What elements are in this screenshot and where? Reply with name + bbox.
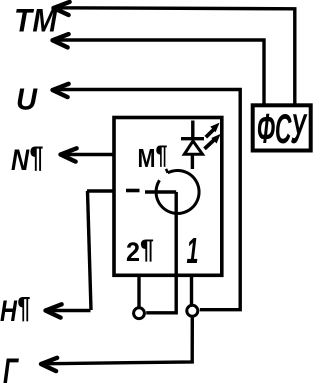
svg-text:ФСУ: ФСУ [257, 105, 308, 152]
svg-text:Н¶: Н¶ [0, 292, 30, 329]
wire G vertical and horizontal [42, 316, 193, 364]
LED arrow 1 [206, 123, 220, 138]
terminal circle 2 (left) [134, 308, 145, 319]
wire TM line 2 [53, 40, 264, 104]
arrowhead G [41, 358, 57, 371]
wire U [53, 90, 240, 310]
motor circle [156, 169, 199, 214]
svg-text:2¶: 2¶ [126, 234, 154, 267]
terminal circle 1 (right) [187, 305, 198, 316]
arrowhead N [61, 148, 77, 161]
wire N [61, 153, 114, 156]
svg-text:U: U [16, 82, 39, 117]
box FSU [253, 105, 311, 150]
arrowhead U [53, 84, 69, 97]
svg-text:М¶: М¶ [138, 140, 168, 174]
motor radius line [145, 190, 176, 193]
svg-text:Г: Г [3, 352, 19, 383]
wire terminal 1 [190, 275, 193, 305]
wire H link to box [87, 189, 114, 192]
wire H lower [46, 309, 91, 312]
LED D1 (photodiode symbol) [181, 121, 204, 170]
LED arrow 2 [205, 134, 221, 149]
svg-text:1: 1 [187, 230, 199, 271]
svg-text:ТМ: ТМ [14, 3, 58, 39]
wire terminal 2 [137, 275, 140, 307]
arrowhead TM1 [54, 2, 70, 15]
svg-text:N¶: N¶ [11, 141, 43, 177]
wire TM line 1 (top) [54, 8, 295, 104]
wire H vertical [88, 191, 92, 310]
arrowhead TM2 [53, 34, 69, 47]
box M (main block outline) [114, 118, 222, 276]
dash (dashed link inside box) [126, 189, 140, 193]
motor shaft wire down to left terminal [146, 192, 176, 313]
arrowhead H [46, 304, 62, 317]
